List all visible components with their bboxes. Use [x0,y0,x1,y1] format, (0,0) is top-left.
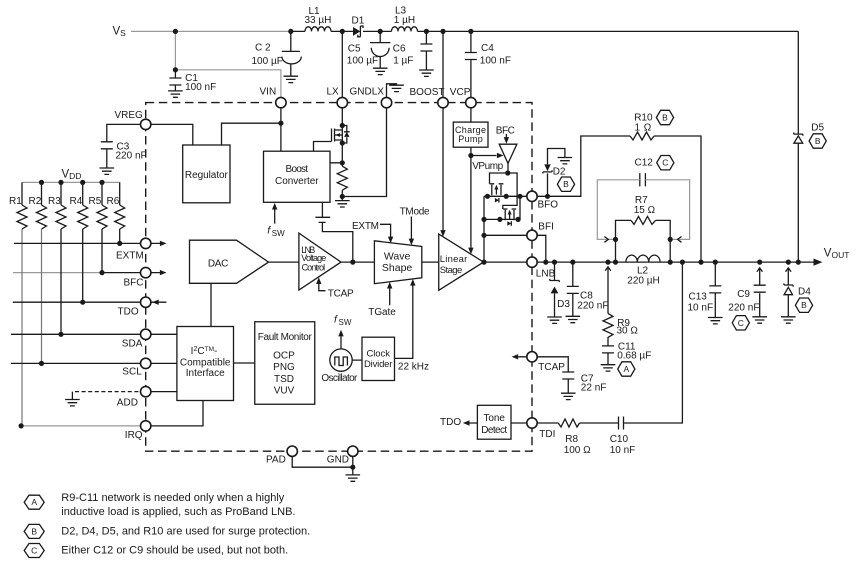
svg-text:1: 1 [635,123,641,134]
svg-text:30 Ω: 30 Ω [617,326,639,337]
svg-text:D5: D5 [811,122,824,133]
svg-text:BFO: BFO [538,200,559,211]
svg-text:Detect: Detect [481,425,507,436]
svg-text:IRQ: IRQ [125,430,143,441]
svg-text:BFI: BFI [538,222,554,233]
svg-text:VS: VS [113,26,127,39]
svg-text:100 nF: 100 nF [480,55,511,66]
svg-text:D3: D3 [557,299,570,310]
svg-text:100 Ω: 100 Ω [564,445,591,456]
svg-text:GND: GND [327,455,349,466]
svg-text:LX: LX [327,86,340,97]
svg-text:C: C [738,318,744,328]
svg-text:C: C [662,158,668,168]
svg-text:C4: C4 [481,43,494,54]
svg-text:SCL: SCL [122,367,142,378]
svg-text:BOOST: BOOST [410,87,445,98]
svg-text:LNB: LNB [536,268,556,279]
svg-text:TMode: TMode [400,207,430,218]
svg-text:Fault Monitor: Fault Monitor [258,332,313,343]
svg-text:Linear: Linear [440,254,468,265]
svg-text:Converter: Converter [275,176,319,187]
svg-text:100 µF: 100 µF [252,56,283,67]
svg-text:C13: C13 [689,291,708,302]
svg-text:Control: Control [302,262,326,272]
svg-text:VPump: VPump [472,161,503,172]
svg-text:SW: SW [339,318,352,327]
svg-text:VCP: VCP [450,87,471,98]
svg-text:BFC: BFC [124,278,144,289]
svg-text:Compatible: Compatible [180,357,231,368]
svg-text:220 nF: 220 nF [728,303,759,314]
svg-text:C: C [31,546,37,556]
svg-text:VIN: VIN [260,86,277,97]
svg-text:VOUT: VOUT [824,247,850,260]
svg-text:Interface: Interface [186,368,225,379]
svg-text:R8: R8 [565,434,578,445]
svg-text:EXTM: EXTM [352,221,379,232]
svg-text:R3: R3 [48,196,61,207]
svg-text:B: B [815,136,821,146]
svg-text:TCAP: TCAP [538,362,565,373]
svg-text:GNDLX: GNDLX [350,86,385,97]
svg-text:220 µH: 220 µH [627,275,659,286]
svg-text:Boost: Boost [286,164,309,175]
svg-text:R4: R4 [70,196,83,207]
svg-text:Shape: Shape [382,262,413,274]
svg-text:D1: D1 [352,15,365,26]
svg-text:0.68 µF: 0.68 µF [617,351,651,362]
svg-text:Oscillator: Oscillator [321,373,358,384]
svg-text:Tone: Tone [483,413,505,424]
svg-text:22 kHz: 22 kHz [398,362,429,373]
svg-text:10 nF: 10 nF [688,303,714,314]
svg-text:1 µH: 1 µH [394,15,415,26]
svg-text:TDO: TDO [118,307,139,318]
svg-text:B: B [563,179,569,189]
svg-text:Regulator: Regulator [185,170,229,181]
svg-text:C6: C6 [393,43,406,54]
svg-text:VUV: VUV [274,386,295,397]
svg-text:Stage: Stage [440,265,463,276]
svg-text:EXTM: EXTM [116,251,144,262]
svg-text:C12: C12 [635,158,654,169]
svg-text:C5: C5 [348,43,361,54]
svg-text:C 2: C 2 [255,43,271,54]
svg-text:R2: R2 [29,196,42,207]
svg-text:R6: R6 [107,196,120,207]
svg-text:R1: R1 [9,196,22,207]
svg-text:PNG: PNG [273,362,295,373]
svg-text:TDI: TDI [539,429,555,440]
svg-text:1 µF: 1 µF [393,56,413,67]
svg-text:B: B [31,526,37,536]
svg-text:B: B [662,113,668,123]
svg-text:OCP: OCP [273,350,295,361]
svg-text:D2, D4, D5, and R10 are used f: D2, D4, D5, and R10 are used for surge p… [61,525,310,537]
svg-text:R9-C11 network is needed only: R9-C11 network is needed only when a hig… [61,492,284,504]
svg-text:A: A [623,364,629,374]
svg-text:VREG: VREG [115,110,144,121]
svg-text:PAD: PAD [266,455,286,466]
svg-text:D2: D2 [553,166,566,177]
svg-text:C9: C9 [737,289,750,300]
svg-text:BFC: BFC [496,125,515,136]
svg-text:15 Ω: 15 Ω [634,205,656,216]
svg-text:TDO: TDO [440,417,461,428]
svg-text:Wave: Wave [384,251,411,263]
svg-text:Divider: Divider [364,359,393,370]
svg-text:33 µH: 33 µH [305,15,332,26]
svg-text:inductive load is applied, suc: inductive load is applied, such as ProBa… [61,506,295,518]
svg-text:Clock: Clock [366,348,390,359]
svg-text:220 nF: 220 nF [116,150,147,161]
svg-text:C10: C10 [610,434,629,445]
svg-text:TSD: TSD [274,374,294,385]
svg-text:22 nF: 22 nF [581,383,607,394]
svg-text:D4: D4 [798,287,811,298]
svg-text:R5: R5 [89,196,102,207]
svg-text:220 nF: 220 nF [577,300,608,311]
svg-text:Either C12 or C9 should be use: Either C12 or C9 should be used, but not… [61,544,288,556]
svg-text:SW: SW [272,229,285,238]
svg-text:DAC: DAC [208,259,229,270]
svg-text:SDA: SDA [122,339,143,350]
svg-text:A: A [31,497,37,507]
svg-text:TGate: TGate [368,307,396,318]
svg-text:VDD: VDD [62,169,82,182]
svg-text:100 µF: 100 µF [347,56,378,67]
svg-text:Pump: Pump [458,134,483,144]
svg-text:TCAP: TCAP [328,289,354,300]
svg-text:100 nF: 100 nF [185,82,216,93]
svg-text:ADD: ADD [117,398,138,409]
svg-text:Ω: Ω [644,123,652,134]
svg-text:B: B [801,300,807,310]
svg-text:10 nF: 10 nF [610,445,636,456]
